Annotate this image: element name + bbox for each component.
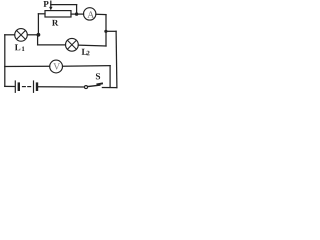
wire voltmeter left lead (5, 65, 50, 67)
wire rheostat right lead (71, 13, 84, 15)
lamp L2 (66, 38, 79, 51)
wire L1 to node (27, 34, 38, 36)
label S (96, 73, 100, 79)
label R (52, 20, 58, 26)
label P (43, 1, 48, 7)
wire battery dashes (23, 86, 31, 88)
wire to L2 (38, 44, 66, 46)
wire bottom-left to battery (5, 85, 15, 87)
wire node down to L2 row (37, 35, 39, 45)
wire top-right horizontal (106, 30, 116, 32)
node junction dot top-right T (104, 30, 107, 33)
wire left edge vertical (4, 35, 6, 87)
resistor R (rheostat body) (45, 11, 71, 17)
ammeter U1 (84, 8, 96, 20)
wire right corner vertical down (105, 15, 107, 46)
label L1 (15, 44, 25, 51)
wire L2 right (78, 44, 106, 47)
voltmeter U2 (50, 60, 63, 73)
label V (53, 63, 60, 69)
wire battery to switch (38, 86, 84, 88)
label L2 (82, 49, 90, 55)
lamp L1 (15, 29, 28, 42)
wire rheostat left lead (38, 13, 45, 15)
battery BT1 cell 1 (15, 81, 18, 92)
node junction dot L1 (37, 33, 41, 37)
wire top-left horizontal to L1 (5, 34, 15, 36)
slider P arrow (49, 1, 52, 10)
wire switch to right edge (102, 87, 117, 89)
wire slider top line (51, 4, 77, 6)
switch S (85, 84, 103, 89)
wire right edge vertical (115, 31, 118, 87)
node junction dot slider line (75, 12, 78, 15)
wire slider line down to main wire (76, 5, 78, 15)
wire voltmeter down to bottom (109, 66, 111, 88)
wire node up to rheostat row (37, 14, 39, 35)
battery BT1 cell 2 (34, 81, 38, 92)
wire voltmeter right lead (63, 65, 111, 68)
wire ammeter to right corner (96, 13, 106, 15)
label A (87, 11, 94, 17)
